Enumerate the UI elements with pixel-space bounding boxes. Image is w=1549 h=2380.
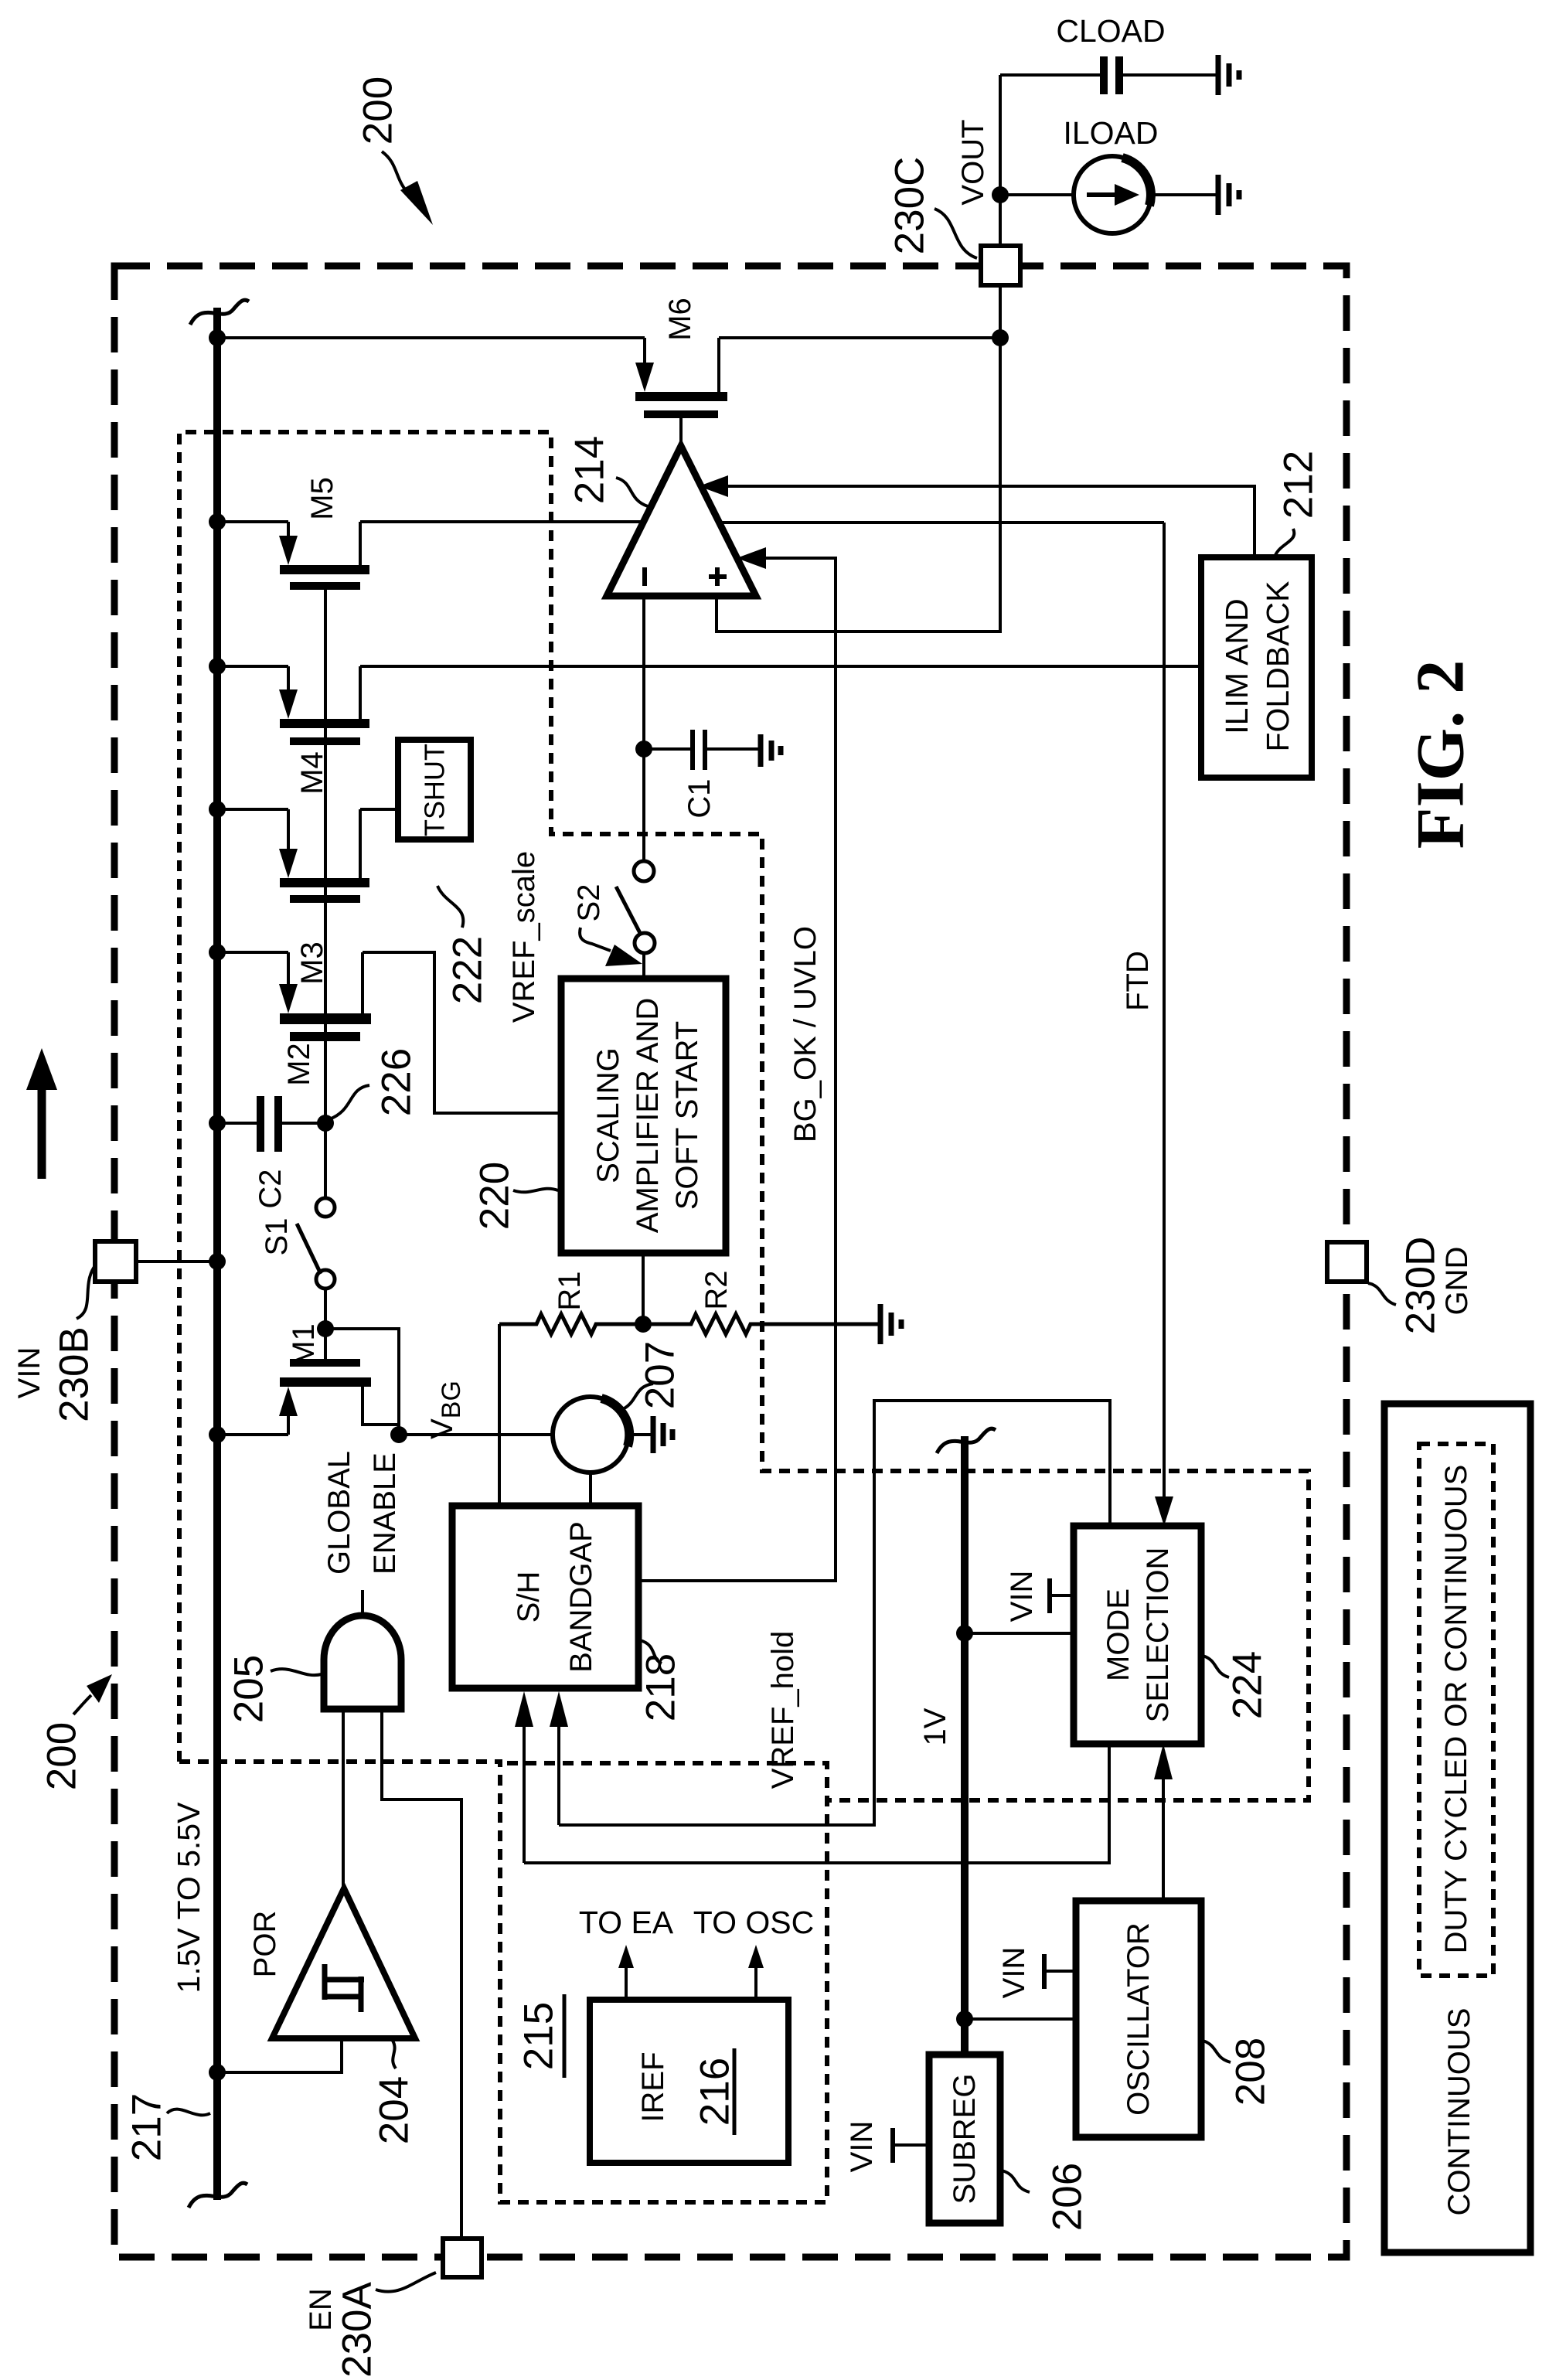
svg-text:222: 222 bbox=[445, 936, 491, 1004]
svg-text:220: 220 bbox=[472, 1162, 518, 1230]
svg-text:AMPLIFIER AND: AMPLIFIER AND bbox=[631, 998, 665, 1234]
bandgap clock input arrow from mode selection bbox=[523, 1725, 526, 1863]
chip boundary dashed border 200 bbox=[114, 266, 1346, 2257]
svg-text:S2: S2 bbox=[572, 884, 606, 922]
svg-text:217: 217 bbox=[124, 2093, 170, 2161]
legend dashed box duty cycled bbox=[1419, 1444, 1493, 1976]
transistor M3 bbox=[287, 809, 290, 852]
wire M3 drain to TSHUT bbox=[360, 808, 398, 811]
input direction arrow bbox=[38, 1087, 46, 1179]
svg-text:226: 226 bbox=[374, 1048, 420, 1116]
wire M2 drain to scaling amplifier bbox=[363, 952, 561, 1113]
wire VBG node bbox=[399, 1433, 553, 1436]
svg-text:VIN: VIN bbox=[12, 1347, 46, 1399]
svg-text:230A: 230A bbox=[335, 2281, 380, 2377]
svg-text:R2: R2 bbox=[700, 1270, 734, 1309]
svg-text:216: 216 bbox=[693, 2058, 738, 2126]
svg-text:M3: M3 bbox=[295, 941, 329, 985]
minus input mark bbox=[642, 567, 647, 586]
node R1/R2/scaling bbox=[635, 1316, 652, 1333]
svg-text:230D: 230D bbox=[1398, 1237, 1444, 1335]
svg-text:M5: M5 bbox=[305, 477, 339, 520]
resistor R2 bbox=[643, 1314, 880, 1334]
hysteresis mark bbox=[322, 1964, 328, 2000]
svg-text:214: 214 bbox=[567, 436, 613, 504]
svg-text:VIN: VIN bbox=[997, 1947, 1031, 1999]
svg-text:S/H: S/H bbox=[512, 1571, 546, 1623]
oscillator output arrow to mode selection bbox=[1162, 1778, 1165, 1901]
svg-text:ILOAD: ILOAD bbox=[1063, 115, 1158, 151]
plus input mark bbox=[709, 574, 727, 579]
svg-text:206: 206 bbox=[1045, 2163, 1091, 2231]
AND output stub GLOBAL ENABLE bbox=[361, 1590, 364, 1616]
wire M5 drain bias into op-amp left edge bbox=[360, 520, 643, 523]
svg-text:BANDGAP: BANDGAP bbox=[564, 1521, 598, 1673]
svg-text:MODE: MODE bbox=[1101, 1588, 1135, 1681]
ground for C1 bbox=[758, 734, 764, 767]
block SCALING AMPLIFIER AND SOFT START 220 bbox=[561, 979, 726, 1253]
wire node up to scaling amplifier bbox=[642, 1253, 645, 1324]
IREF output arrow TO OSC bbox=[754, 1963, 757, 2000]
capacitor C2 bbox=[217, 1122, 257, 1125]
svg-text:VBG: VBG bbox=[425, 1381, 466, 1439]
ground for CLOAD bbox=[1216, 55, 1221, 95]
svg-text:VREF_hold: VREF_hold bbox=[766, 1631, 800, 1789]
svg-text:SCALING: SCALING bbox=[591, 1047, 625, 1183]
duty-cycled region fine-dashed staircase boundary bbox=[179, 432, 1309, 1800]
wire M6 drain to VOUT node bbox=[719, 336, 1000, 339]
wire R1 left to bandgap bbox=[498, 1324, 501, 1506]
wire ILIM output to op-amp input 1 arrow bbox=[728, 486, 1255, 557]
svg-text:EN: EN bbox=[304, 2288, 338, 2331]
node 226 bbox=[317, 1115, 334, 1132]
block IREF 216 bbox=[590, 2000, 788, 2163]
svg-text:215: 215 bbox=[516, 2002, 562, 2070]
svg-text:SELECTION: SELECTION bbox=[1141, 1548, 1175, 1723]
EN pin 230A bbox=[443, 2239, 482, 2277]
switch S2 bbox=[634, 861, 654, 881]
1V rail break squiggle bbox=[937, 1428, 996, 1453]
transistor M4 bbox=[287, 666, 290, 693]
svg-text:224: 224 bbox=[1225, 1651, 1271, 1719]
svg-text:TO OSC: TO OSC bbox=[693, 1905, 814, 1940]
svg-text:207: 207 bbox=[638, 1341, 683, 1409]
wire VIN rail to M3 source bbox=[217, 808, 288, 811]
svg-text:SUBREG: SUBREG bbox=[948, 2074, 982, 2205]
load capacitor CLOAD bbox=[1000, 73, 1100, 77]
transistor M2 bbox=[287, 952, 290, 987]
svg-text:FOLDBACK: FOLDBACK bbox=[1260, 581, 1295, 752]
svg-text:ENABLE: ENABLE bbox=[368, 1452, 402, 1575]
wire 1V to mode selection bbox=[956, 1625, 973, 1642]
svg-text:GLOBAL: GLOBAL bbox=[322, 1451, 356, 1575]
rail break squiggle top bbox=[190, 300, 249, 325]
svg-text:BG_OK / UVLO: BG_OK / UVLO bbox=[788, 926, 822, 1142]
IREF region dashed box 215 bbox=[179, 1762, 827, 2202]
svg-text:VOUT: VOUT bbox=[956, 119, 990, 205]
svg-text:CONTINUOUS: CONTINUOUS bbox=[1442, 2008, 1476, 2216]
common gate line M5-M2 down to node 226 bbox=[324, 590, 327, 1123]
wire 1V to oscillator bbox=[956, 2011, 973, 2028]
resistor R1 bbox=[499, 1314, 643, 1334]
block TSHUT 222 bbox=[398, 740, 471, 839]
AND gate 205 bbox=[324, 1616, 401, 1709]
block SUBREG 206 bbox=[929, 2055, 1000, 2223]
rail break squiggle bottom bbox=[189, 2183, 247, 2208]
wire VIN rail to M6 source bbox=[217, 336, 645, 339]
VIN pin 230B bbox=[95, 1241, 136, 1282]
svg-text:230B: 230B bbox=[52, 1326, 97, 1422]
svg-text:POR: POR bbox=[248, 1911, 282, 1978]
svg-text:M1: M1 bbox=[287, 1323, 321, 1367]
svg-text:1V: 1V bbox=[918, 1708, 952, 1745]
op-amp plus input feedback from VOUT bbox=[717, 285, 1000, 632]
switch S1 bbox=[324, 1123, 327, 1198]
svg-text:S1: S1 bbox=[260, 1218, 294, 1256]
svg-text:204: 204 bbox=[372, 2076, 417, 2144]
legend box bbox=[1384, 1404, 1530, 2252]
svg-text:VREF_scale: VREF_scale bbox=[507, 851, 541, 1023]
svg-text:VIN: VIN bbox=[845, 2121, 879, 2173]
op-amp 214 error amplifier bbox=[607, 446, 756, 596]
svg-text:VIN: VIN bbox=[1005, 1571, 1039, 1622]
svg-text:IREF: IREF bbox=[636, 2051, 670, 2122]
wire VIN rail to M5 source bbox=[217, 520, 288, 523]
svg-text:M4: M4 bbox=[295, 751, 329, 795]
bandgap core circle 207 bbox=[553, 1397, 628, 1473]
transistor M5 bbox=[287, 522, 290, 539]
FTD line down to mode selection bbox=[1163, 523, 1166, 1498]
VOUT node and pin 230C bbox=[992, 329, 1009, 346]
bandgap VREF_hold input arrow bbox=[557, 1725, 560, 1825]
svg-text:1.5V TO 5.5V: 1.5V TO 5.5V bbox=[171, 1802, 206, 1994]
svg-text:TO EA: TO EA bbox=[579, 1905, 674, 1940]
svg-text:208: 208 bbox=[1228, 2038, 1274, 2106]
svg-text:205: 205 bbox=[226, 1655, 272, 1723]
wire op-amp right edge to FTD line bbox=[719, 521, 1164, 524]
wire VIN rail to M2 source bbox=[217, 951, 288, 954]
wire VIN rail to M4 source and to ILIM bbox=[217, 665, 288, 668]
svg-text:212: 212 bbox=[1276, 451, 1322, 519]
VIN rail 217 bbox=[213, 308, 221, 2200]
svg-text:200: 200 bbox=[39, 1722, 85, 1790]
svg-text:DUTY CYCLED OR CONTINUOUS: DUTY CYCLED OR CONTINUOUS bbox=[1439, 1465, 1473, 1954]
node dot rail-230B bbox=[209, 1253, 226, 1270]
svg-text:GND: GND bbox=[1440, 1247, 1474, 1316]
svg-text:200: 200 bbox=[356, 77, 401, 145]
svg-text:CLOAD: CLOAD bbox=[1056, 13, 1165, 49]
ground for 207 bbox=[651, 1416, 656, 1453]
POR input wire from rail bbox=[209, 2064, 226, 2081]
svg-text:TSHUT: TSHUT bbox=[419, 744, 451, 836]
wire pin to rail bbox=[136, 1260, 217, 1263]
transistor M1 (diode connected) bbox=[290, 1359, 360, 1367]
svg-text:FTD: FTD bbox=[1121, 951, 1155, 1011]
wire BG_OK/UVLO to op-amp input 2 arrow bbox=[638, 558, 836, 1581]
block MODE SELECTION 224 bbox=[1074, 1526, 1201, 1744]
svg-text:M6: M6 bbox=[663, 298, 697, 341]
GND pin 230D bbox=[1327, 1242, 1367, 1282]
block OSCILLATOR 208 bbox=[1076, 1901, 1201, 2137]
op-amp minus input stub down bbox=[642, 596, 645, 860]
ground for ILOAD bbox=[1216, 175, 1221, 215]
svg-text:C1: C1 bbox=[683, 778, 717, 818]
capacitor C1 bbox=[635, 741, 652, 758]
1V rail bbox=[961, 1436, 969, 2055]
POR output to AND gate bbox=[342, 1709, 345, 1888]
svg-text:R1: R1 bbox=[553, 1271, 587, 1310]
POR comparator 204 bbox=[272, 1888, 415, 2038]
load current source ILOAD bbox=[992, 186, 1009, 203]
wire M4 drain to ILIM block bbox=[360, 665, 1201, 668]
svg-text:C2: C2 bbox=[254, 1169, 288, 1208]
IREF output arrow TO EA bbox=[625, 1963, 628, 2000]
svg-text:ILIM AND: ILIM AND bbox=[1219, 598, 1255, 734]
svg-text:230C: 230C bbox=[887, 157, 933, 255]
ground for R2 bbox=[878, 1304, 883, 1344]
svg-text:M2: M2 bbox=[282, 1043, 316, 1086]
transistor M6 bbox=[643, 338, 646, 366]
AND input from EN pin bbox=[382, 1709, 461, 2239]
svg-text:OSCILLATOR: OSCILLATOR bbox=[1122, 1922, 1156, 2116]
svg-text:FIG. 2: FIG. 2 bbox=[1404, 660, 1479, 849]
block ILIM AND FOLDBACK 212 bbox=[1201, 557, 1312, 778]
block S/H BANDGAP 218 bbox=[452, 1506, 638, 1688]
svg-text:SOFT START: SOFT START bbox=[670, 1021, 704, 1210]
node M1 gate bbox=[317, 1320, 334, 1337]
